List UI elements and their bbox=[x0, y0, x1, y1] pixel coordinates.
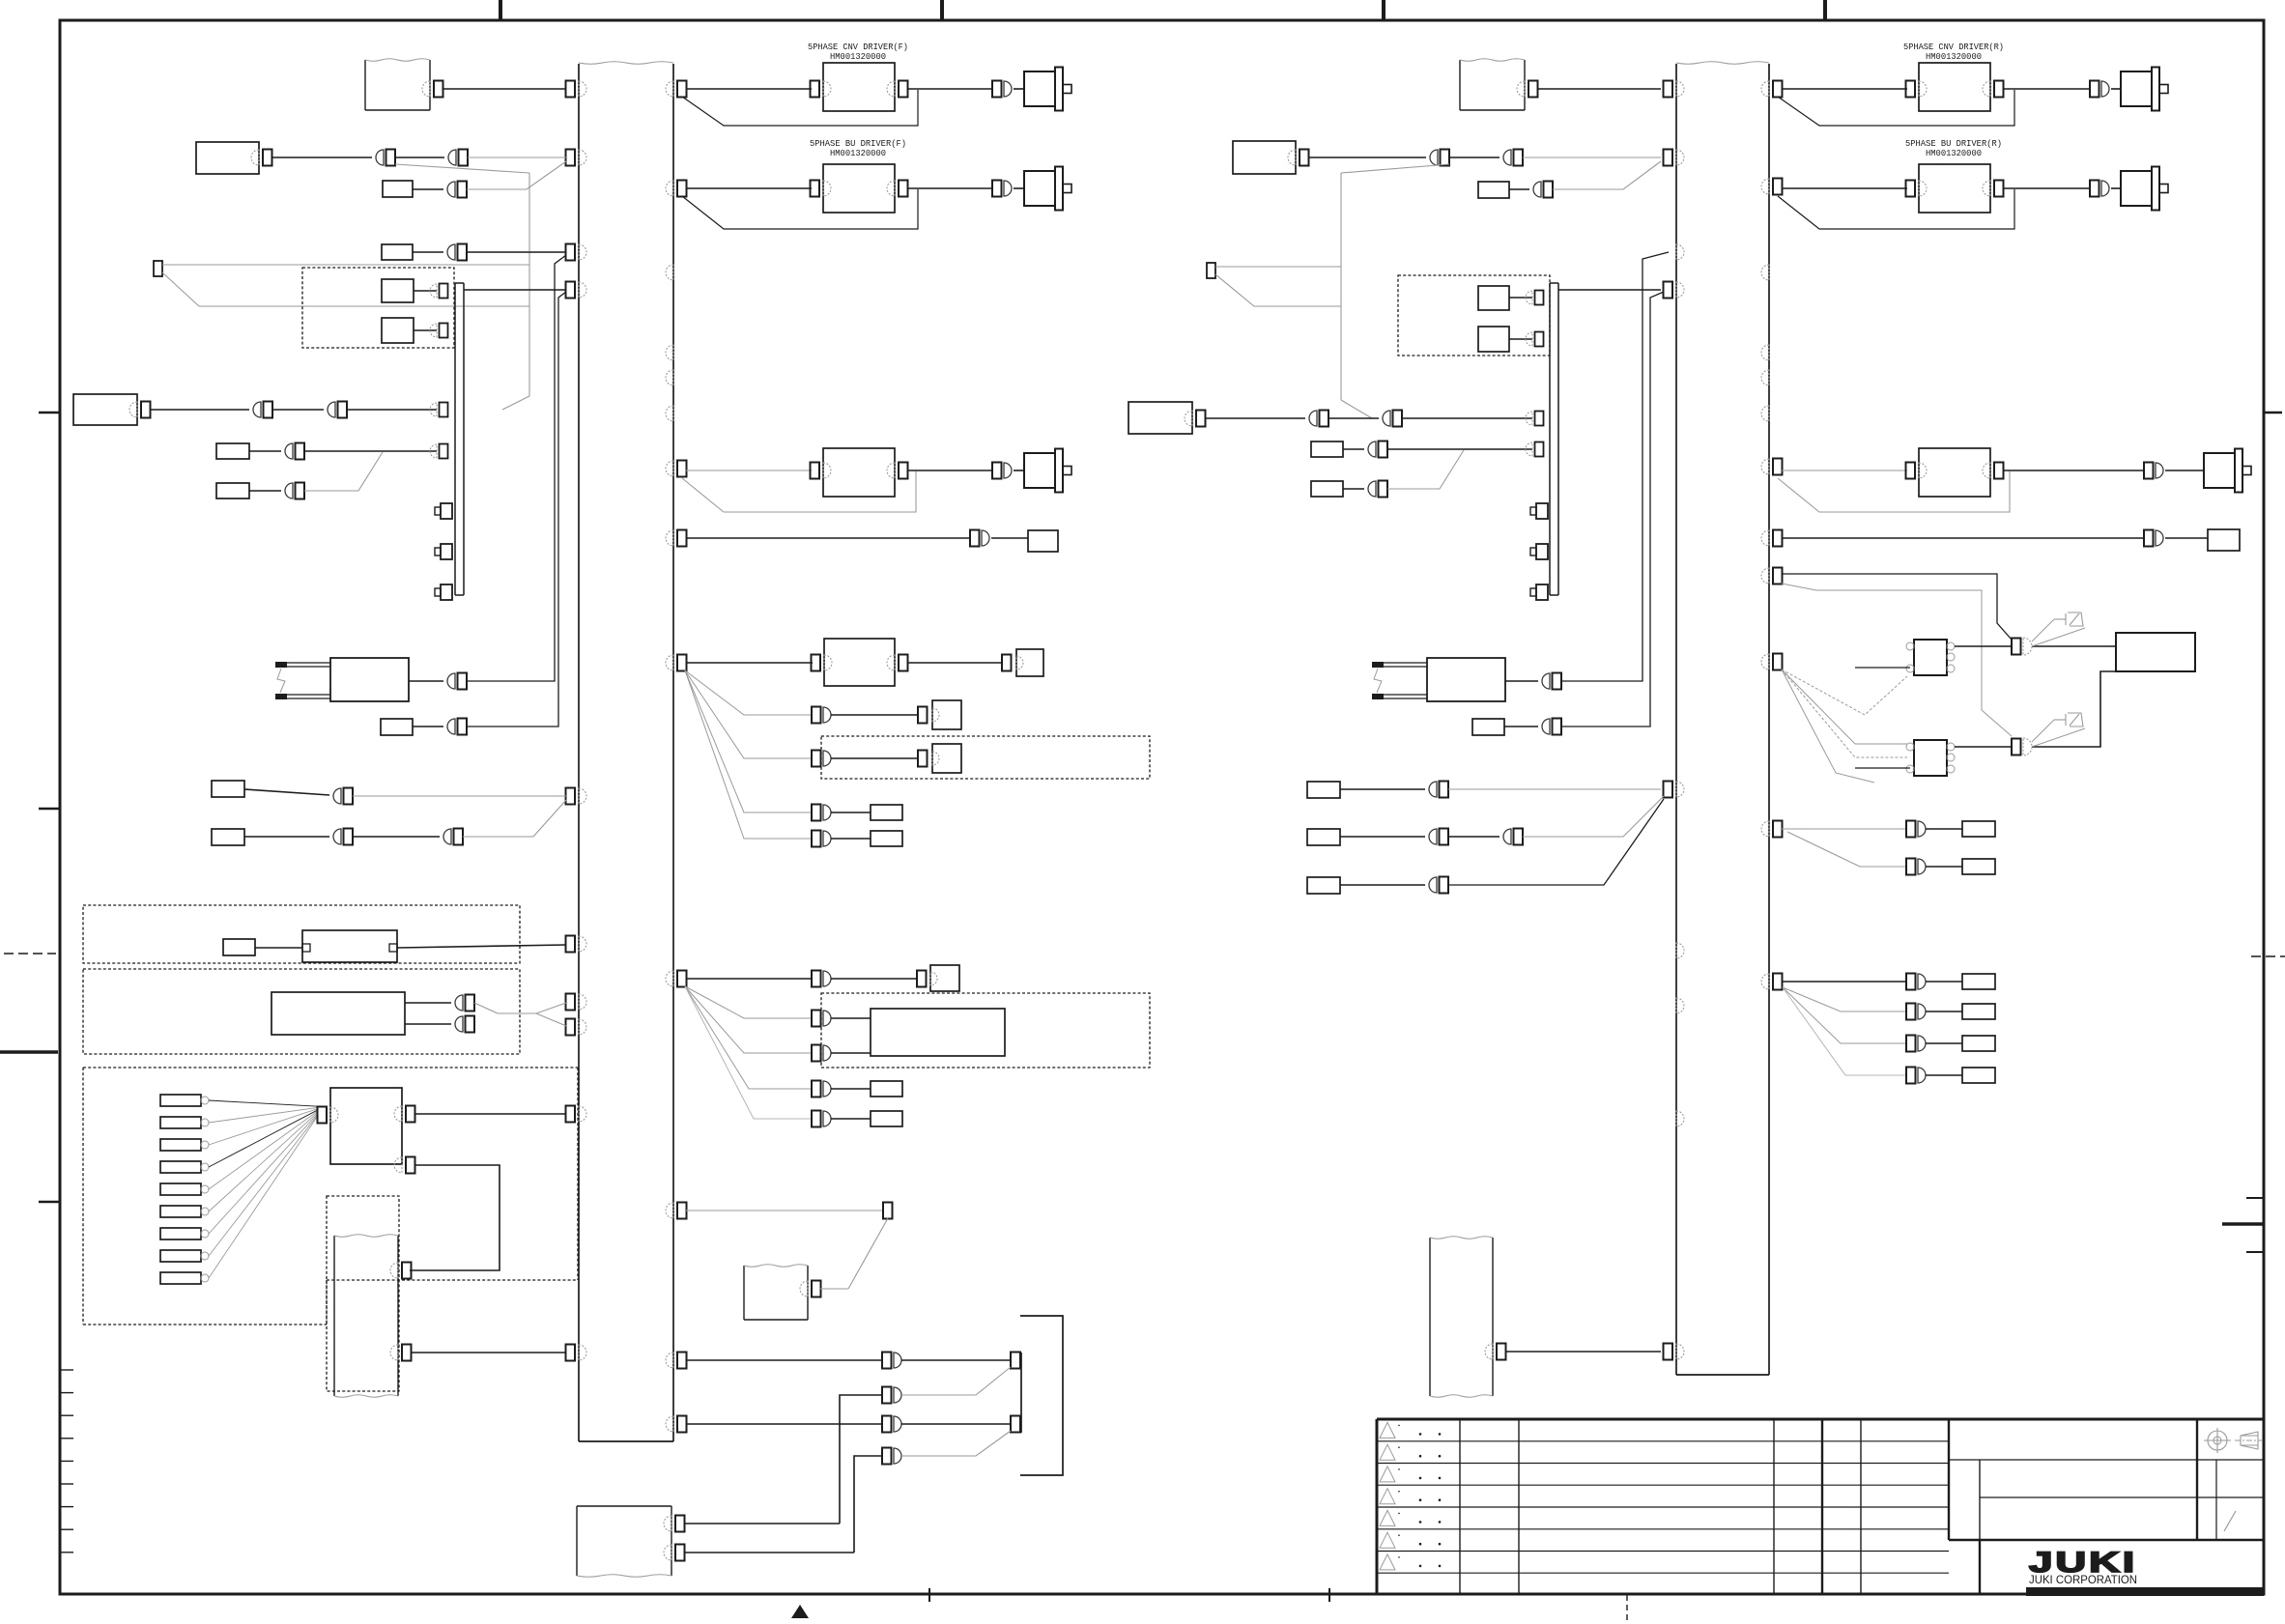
terminal X5 bbox=[871, 1081, 902, 1097]
bus J1 pin row CN6 bbox=[566, 936, 587, 953]
fuse F3 bbox=[1311, 442, 1343, 457]
terminal X12 bbox=[1962, 859, 1995, 874]
wire CN55-CN56 bbox=[353, 836, 440, 838]
cable bundle W3 bbox=[744, 1265, 808, 1320]
stud terminal T3 bbox=[435, 584, 452, 600]
terminal X11 bbox=[1962, 821, 1995, 837]
bus J1 out CN18 bbox=[666, 1353, 687, 1369]
wire CN100 to box A7 bbox=[2032, 645, 2116, 647]
bracket terminal B2 bbox=[1011, 1416, 1020, 1433]
inline connector pair CN68 bbox=[812, 831, 831, 847]
wire X1 branch 2 bbox=[162, 272, 529, 306]
wire bus to CN70 bbox=[686, 978, 812, 980]
wire bus long run y557 bbox=[686, 537, 970, 539]
U5 out connector bbox=[1983, 81, 2004, 98]
connector on A1 bbox=[251, 150, 272, 166]
inline connector pair CN86 bbox=[1383, 411, 1402, 427]
front-side main harness bus J1 bbox=[579, 62, 673, 1441]
relay module K10 bbox=[383, 181, 413, 197]
terminal X14 bbox=[1962, 1004, 1995, 1019]
connector CN84 bbox=[1526, 332, 1544, 347]
inline connector pair CN91 bbox=[1542, 673, 1561, 690]
inline connector pair CN96 bbox=[1429, 877, 1448, 894]
connector CN48 on J3 bbox=[430, 403, 448, 417]
inline connector pair CN85 bbox=[1309, 411, 1328, 427]
U1 out connector bbox=[887, 81, 908, 98]
thermostat TH2 bbox=[1472, 719, 1504, 735]
inline connector pair CN42 bbox=[447, 182, 467, 198]
inline connector pair CN61 bbox=[992, 181, 1012, 197]
solenoid SOL2 (rear) bbox=[1372, 658, 1505, 701]
unused bus pin bbox=[1676, 943, 1684, 958]
inline connector pair CN72 bbox=[812, 1045, 831, 1062]
relay module K20 bbox=[1478, 182, 1509, 198]
unused bus pin bbox=[666, 406, 673, 421]
inline connector pair CN76 bbox=[882, 1416, 901, 1433]
wire bus long run y557 R bbox=[1782, 537, 2144, 539]
JUKI logo bbox=[2029, 1547, 2137, 1579]
motor driver U7 bbox=[1919, 448, 1990, 497]
bus J2 out CN30 bbox=[1761, 568, 1783, 584]
U1 in connector bbox=[811, 81, 832, 98]
sensor S1a bbox=[382, 279, 414, 302]
cable bundle W5 (rear) bbox=[1460, 59, 1525, 110]
wire CN94-CN95 bbox=[1448, 836, 1500, 838]
wire CN47 to sub-bus bbox=[347, 409, 437, 411]
unused bus pin bbox=[666, 370, 673, 385]
wire J3 to bus bbox=[464, 289, 566, 291]
bus J2 pin row CN25 bbox=[1664, 1344, 1685, 1360]
wire CN74 to terminal X6 bbox=[831, 1118, 871, 1120]
wire CN88 to sub-bus bbox=[1387, 448, 1532, 450]
sensor S11 bbox=[2208, 529, 2240, 551]
wire CN110 to motor M4 bbox=[2111, 88, 2121, 90]
bus J1 pin row CN5 bbox=[566, 788, 587, 805]
sensor S2 bbox=[1028, 530, 1058, 552]
wire CN76 to bracket bbox=[901, 1423, 1011, 1425]
detector amp A4 bbox=[871, 1009, 1005, 1056]
wire S10a to sub-bus bbox=[1509, 297, 1532, 299]
connector CN64 + sensor head bbox=[1002, 649, 1043, 676]
right border centre dash mark bbox=[2251, 955, 2285, 957]
inline connector pair CN55 bbox=[333, 829, 353, 845]
connector on A2 bbox=[129, 402, 151, 418]
wire F4 to CN90 bbox=[1343, 488, 1364, 490]
gray riser foot diagonal bbox=[502, 396, 529, 410]
unused bus pin bbox=[1761, 406, 1769, 421]
wire bus CN18 to CN75 bbox=[686, 1359, 882, 1361]
cable bundle W6 bbox=[1430, 1237, 1493, 1398]
stepper motor M3 bbox=[1024, 449, 1071, 493]
wire J4 to bus J2 bbox=[1558, 289, 1661, 291]
rear-side main harness bus J2 bbox=[1676, 62, 1769, 1375]
switch SW5 bbox=[1307, 877, 1340, 894]
stud terminal T2 bbox=[435, 544, 452, 559]
wire S10b to sub-bus bbox=[1509, 338, 1532, 340]
wire FL1 to bus bbox=[397, 945, 566, 948]
dashed outline around W2 bbox=[327, 1196, 399, 1391]
connector on A6 bbox=[1185, 411, 1206, 427]
fan-out wires from bus CN16 bbox=[685, 986, 812, 1119]
U7 in connector bbox=[1906, 463, 1928, 479]
inline connector pair CN66 bbox=[812, 751, 831, 767]
fuse F2 bbox=[216, 483, 249, 499]
bus J2 out CN27 bbox=[1761, 179, 1783, 195]
inline connector pair CN113 bbox=[2144, 530, 2163, 547]
connector on W1 bbox=[422, 81, 443, 98]
wire CN49 to sub-bus bbox=[304, 450, 437, 452]
terminal strip fan-out wires bbox=[209, 1100, 318, 1278]
wire CN101 to PL2 bbox=[2032, 720, 2054, 742]
indicator PL1 bbox=[2054, 613, 2083, 626]
inline connector pair CN67 bbox=[812, 805, 831, 821]
wire U6 to CN111 bbox=[2003, 187, 2090, 189]
wire CN77 riser from W4 bbox=[840, 1395, 882, 1524]
fuse F1 bbox=[216, 443, 249, 459]
bus J1 out CN12 bbox=[666, 181, 687, 197]
wire A3 loop to W2 bbox=[410, 1165, 500, 1270]
wire SOL1 out bbox=[409, 680, 443, 682]
bus J2 pin row CN21 bbox=[1664, 81, 1685, 98]
wire U4 to CN64 bbox=[907, 662, 1002, 664]
wire K11 to CN45 bbox=[413, 251, 443, 253]
wire U5 bypass loop bbox=[1778, 90, 2014, 126]
inline connector pair CN45 bbox=[447, 244, 467, 261]
inline connector pair CN95 bbox=[1503, 829, 1523, 845]
bus J1 out CN14 bbox=[666, 530, 687, 547]
wire CN80-CN81 bbox=[1449, 157, 1500, 158]
wire W6 to bus J2 bbox=[1505, 1351, 1661, 1353]
title block row lines bbox=[1377, 1441, 1949, 1573]
wire K2 to CN101 bbox=[1955, 746, 2012, 748]
U4 out connector bbox=[887, 655, 908, 671]
wire U5 to CN110 bbox=[2003, 88, 2090, 90]
spare terminal X8 bbox=[1207, 263, 1215, 278]
connector A3 left bbox=[318, 1107, 339, 1124]
wire CN95 merge diag bbox=[1523, 796, 1664, 837]
wire W4 lower bbox=[685, 1552, 855, 1553]
wire A1 to inline pair bbox=[271, 157, 372, 158]
fan-out dashed wires from bus CN31 bbox=[1782, 670, 1907, 783]
gray riser wire x548 bbox=[528, 173, 530, 396]
wire CN45 to bus bbox=[467, 251, 566, 253]
wire CN100 to PL1 b bbox=[2032, 628, 2085, 646]
wire F1 to CN49 bbox=[249, 450, 281, 452]
wire CN100 to PL1 bbox=[2032, 619, 2054, 641]
inline connector pair CN46 bbox=[253, 402, 272, 418]
spare terminal X1 bbox=[154, 261, 162, 276]
bus J1 pin row CN4 bbox=[566, 282, 587, 299]
inline connector pair CN103 bbox=[1906, 859, 1926, 875]
I/O CPU board A3 bbox=[330, 1088, 402, 1164]
wire stub to K2 bbox=[1855, 767, 1910, 769]
wire bus CN33 to CN104 bbox=[1782, 981, 1906, 983]
sensor S1b bbox=[382, 318, 414, 343]
wire CN71 to A4 bbox=[831, 1017, 871, 1019]
wire F3 to CN88 bbox=[1343, 448, 1364, 450]
fan-out wires from bus CN33 bbox=[1783, 987, 1906, 1075]
fuse F4 bbox=[1311, 481, 1343, 497]
U7 out connector bbox=[1983, 463, 2004, 479]
power supply PS1 body bbox=[271, 992, 405, 1035]
inline connector pair CN102 bbox=[1906, 821, 1926, 838]
wire CN68 to terminal bbox=[831, 838, 871, 840]
connector + sensor S4 bbox=[918, 744, 961, 773]
top edge registration tick 1 bbox=[499, 0, 502, 20]
U2 in connector bbox=[811, 181, 832, 197]
inline connector pair CN62 bbox=[992, 463, 1012, 479]
switch SW4 bbox=[1307, 829, 1340, 845]
inline connector pair CN107 bbox=[1906, 1068, 1926, 1084]
left border tick y837 bbox=[39, 808, 60, 811]
top edge registration tick 4 bbox=[1823, 0, 1827, 20]
wire CN46-CN47 bbox=[272, 409, 324, 411]
connector W4 upper bbox=[664, 1516, 685, 1532]
U4 in connector bbox=[812, 655, 833, 671]
svg-text:JUKI CORPORATION: JUKI CORPORATION bbox=[2029, 1575, 2137, 1586]
connector on W2 upper bbox=[390, 1263, 412, 1279]
wire CN81 to bus J2 bbox=[1523, 157, 1661, 158]
inline connector pair CN65 bbox=[812, 707, 831, 724]
wire CN75 to bracket bbox=[901, 1359, 1011, 1361]
U5 in connector bbox=[1906, 81, 1928, 98]
wire K20 to CN82 bbox=[1509, 188, 1529, 190]
wire CN56 merge bbox=[463, 836, 533, 838]
wire CN63 to sensor bbox=[991, 537, 1028, 539]
control unit A5 bbox=[1233, 141, 1296, 174]
wire W4 upper bbox=[685, 1523, 841, 1524]
cable bundle W4 bbox=[577, 1506, 671, 1577]
connector on W5 bbox=[1517, 81, 1538, 98]
wire CN60 to motor M1 bbox=[1014, 88, 1024, 90]
switch SW1 bbox=[212, 781, 244, 797]
svg-text:HM001320000: HM001320000 bbox=[1926, 148, 1982, 158]
unused bus pin bbox=[1676, 244, 1684, 260]
title block outline bbox=[1377, 1419, 2264, 1595]
bus J1 pin row CN8 bbox=[566, 1019, 587, 1036]
inline connector pair CN92 bbox=[1542, 719, 1561, 735]
power unit A6 bbox=[1128, 402, 1192, 434]
revision triangle marker bbox=[791, 1605, 809, 1618]
wire bus to CNV driver F bbox=[686, 88, 812, 90]
wire TH1 to CN53 bbox=[413, 726, 443, 727]
wire SW3 to CN93 bbox=[1340, 788, 1425, 790]
wire harness merge to bus bbox=[474, 1003, 566, 1013]
wire CN66 to sensor S4 bbox=[831, 757, 918, 759]
wire CN101 to A7 bbox=[2032, 671, 2116, 747]
connector + sensor S5 bbox=[917, 965, 959, 991]
wire CN106 to terminal X15 bbox=[1926, 1042, 1962, 1044]
wire A3 to bus bbox=[414, 1113, 566, 1115]
wire CN92 riser bbox=[1561, 292, 1664, 727]
relay K1 bbox=[1906, 640, 1955, 675]
solenoid SOL1 (front) bbox=[275, 658, 409, 701]
svg-text:HM001320000: HM001320000 bbox=[830, 51, 886, 62]
wire CN85-CN86 bbox=[1328, 417, 1379, 419]
bus J1 pin row CN2 bbox=[566, 150, 587, 166]
wire CN104 to terminal X13 bbox=[1926, 981, 1962, 983]
svg-text:HM001320000: HM001320000 bbox=[1926, 51, 1982, 62]
terminal X13 bbox=[1962, 974, 1995, 989]
inline connector pair CN81 bbox=[1503, 150, 1523, 166]
title block right-section lines bbox=[1949, 1419, 2264, 1540]
control unit A1 bbox=[196, 142, 259, 174]
bus J1 pin row CN10 bbox=[566, 1345, 587, 1361]
dashed unit: power supply PS1 bbox=[83, 969, 520, 1054]
connector CN50 on J3 bbox=[430, 444, 448, 459]
inline connector pair CN58 bbox=[455, 1016, 474, 1033]
left border centre dash mark bbox=[4, 953, 56, 954]
connector on W2 lower bbox=[390, 1345, 412, 1361]
wire X1 branch 1 bbox=[162, 264, 529, 266]
filter FL1 bbox=[302, 930, 397, 962]
wire CN42 riser to bus bbox=[467, 161, 566, 189]
wire F2 to CN51 bbox=[249, 490, 281, 492]
wire bus to BU driver F bbox=[686, 187, 812, 189]
inline connector pair CN80 bbox=[1430, 150, 1449, 166]
inline connector pair CN52 bbox=[447, 673, 467, 690]
wire branch to CN103 bbox=[1787, 832, 1906, 867]
wire TH2 to CN92 bbox=[1504, 726, 1538, 727]
bus J2 out CN26 bbox=[1761, 81, 1783, 98]
dashed unit: I/O block outline bbox=[83, 1068, 578, 1325]
brake unit A7 bbox=[2116, 633, 2195, 671]
wire W2 to bus bbox=[411, 1352, 566, 1353]
sheet slash mark bbox=[2224, 1511, 2236, 1531]
wire W1 to bus bbox=[443, 88, 566, 90]
inline connector pair CN73 bbox=[812, 1081, 831, 1097]
wire A2 to CN46 bbox=[150, 409, 249, 411]
wire harness merge to bus 2 bbox=[498, 1013, 566, 1026]
dashed unit: detector block DG1 bbox=[821, 993, 1150, 1068]
stud terminal T1 bbox=[435, 503, 452, 519]
U3 out connector bbox=[887, 463, 908, 479]
wire W3 stub bbox=[820, 1288, 848, 1290]
connector CN87 on J4 bbox=[1526, 412, 1544, 426]
inline connector pair CN71 bbox=[812, 1011, 831, 1027]
5phase BU driver (F) U2 bbox=[823, 164, 895, 213]
inline connector pair CN57 bbox=[455, 995, 474, 1011]
5phase CNV driver (R) U5 bbox=[1919, 63, 1990, 111]
terminal X16 bbox=[1962, 1068, 1995, 1083]
left border tick y1244 bbox=[39, 1201, 60, 1204]
bus J1 out CN11 bbox=[666, 81, 687, 98]
wire stub to K1 bbox=[1855, 667, 1910, 669]
motor driver U3 bbox=[823, 448, 895, 497]
wire CN70 to sensor S5 bbox=[831, 978, 917, 980]
revision triangles and dots in title block bbox=[1380, 1422, 1441, 1570]
wire CN90 merge bbox=[1387, 450, 1464, 489]
bus J1 pin row CN1 bbox=[566, 81, 587, 98]
stud terminal T4 bbox=[1530, 503, 1548, 519]
wire U6 bypass loop bbox=[1778, 189, 2014, 229]
inline connector pair CN77 bbox=[882, 1387, 901, 1404]
top edge registration tick 2 bbox=[940, 0, 944, 20]
bus J1 out CN17 bbox=[666, 1203, 687, 1219]
cable bundle W2 bbox=[334, 1235, 398, 1398]
inline connector pair CN70 bbox=[812, 971, 831, 987]
wire bus CN17 to X7 bbox=[686, 1210, 883, 1211]
connector CN83 bbox=[1526, 291, 1544, 305]
power unit A2 bbox=[73, 394, 137, 425]
right border tick y1296 bbox=[2246, 1251, 2264, 1253]
inline connector pair CN56 bbox=[443, 829, 463, 845]
wire CN73 to terminal X5 bbox=[831, 1088, 871, 1090]
U6 in connector bbox=[1906, 181, 1928, 197]
wire CN52 riser bbox=[467, 255, 566, 681]
wire branch diagonal R bbox=[1341, 164, 1449, 173]
inline connector pair CN40 bbox=[376, 150, 395, 166]
inline connector pair CN75 bbox=[882, 1353, 901, 1369]
wire CN91 riser bbox=[1561, 252, 1669, 681]
stepper motor M2 bbox=[1024, 167, 1071, 211]
inline connector pair CN78 bbox=[882, 1448, 901, 1465]
wire CN62 to motor M3 bbox=[1014, 470, 1024, 471]
inline connector pair CN105 bbox=[1906, 1004, 1926, 1020]
wire K10 to CN42 bbox=[413, 188, 443, 190]
left border tick y427 bbox=[39, 412, 60, 414]
wire U1 to CN60 bbox=[907, 88, 992, 90]
wire U7 bypass loop bbox=[1778, 471, 2010, 512]
wire CN102 to terminal X11 bbox=[1926, 828, 1962, 830]
inline connector pair CN106 bbox=[1906, 1036, 1926, 1052]
bracket terminal B1 bbox=[1011, 1353, 1020, 1369]
third-angle projection symbol bbox=[2204, 1428, 2262, 1453]
wire CN51 merge bbox=[304, 452, 383, 491]
sensor S10a bbox=[1478, 286, 1509, 310]
right border tick y427 bbox=[2264, 412, 2282, 414]
dashed unit: sensor block S10 bbox=[1398, 275, 1550, 356]
mounting bracket outline bbox=[1020, 1316, 1063, 1475]
wire CN93 to bus J2 bbox=[1448, 788, 1661, 790]
bus J1 pin row CN7 bbox=[566, 994, 587, 1011]
bus J2 pin row CN23 bbox=[1664, 282, 1685, 299]
fan-out wires from bus CN15 bbox=[685, 670, 812, 839]
inline connector pair CN112 bbox=[2144, 463, 2163, 479]
wire A5 to CN80 bbox=[1308, 157, 1426, 158]
relay K2 bbox=[1906, 740, 1955, 776]
cable bundle W1 (front) bbox=[365, 59, 430, 110]
terminal X6 bbox=[871, 1111, 902, 1126]
wire U2 to CN61 bbox=[907, 187, 992, 189]
wire CN101 to PL2 b bbox=[2032, 728, 2085, 747]
connector S1a-CN43 bbox=[430, 284, 448, 299]
inline connector pair CN104 bbox=[1906, 974, 1926, 990]
wire X8 branch 1 bbox=[1215, 266, 1341, 268]
inline connector pair CN93 bbox=[1429, 782, 1448, 798]
5phase CNV driver (F) U1 bbox=[823, 63, 895, 111]
wire CN105 to terminal X14 bbox=[1926, 1011, 1962, 1012]
svg-text:HM001320000: HM001320000 bbox=[830, 148, 886, 158]
inline connector pair CN88 bbox=[1368, 442, 1387, 458]
stepper motor M5 bbox=[2121, 167, 2168, 211]
U6 out connector bbox=[1983, 181, 2004, 197]
wire U7 to CN112 bbox=[2003, 470, 2144, 471]
wire bus to driver U7 bbox=[1782, 470, 1907, 471]
wire CN61 to motor M2 bbox=[1014, 187, 1024, 189]
bus J2 pin row CN24 bbox=[1664, 782, 1685, 798]
inline connector pair CN49 bbox=[285, 443, 304, 460]
top edge registration tick 3 bbox=[1382, 0, 1385, 20]
unused bus pin bbox=[666, 345, 673, 360]
unused bus pin bbox=[666, 265, 673, 280]
wire U3 to CN62 bbox=[907, 470, 992, 471]
connector on A5 bbox=[1288, 150, 1309, 166]
wire CN41 to bus bbox=[468, 157, 566, 158]
wire bus to U4 bbox=[686, 662, 813, 664]
wire bus CN32 to CN102 bbox=[1782, 828, 1906, 830]
bus J1 pin row CN3 bbox=[566, 244, 587, 261]
